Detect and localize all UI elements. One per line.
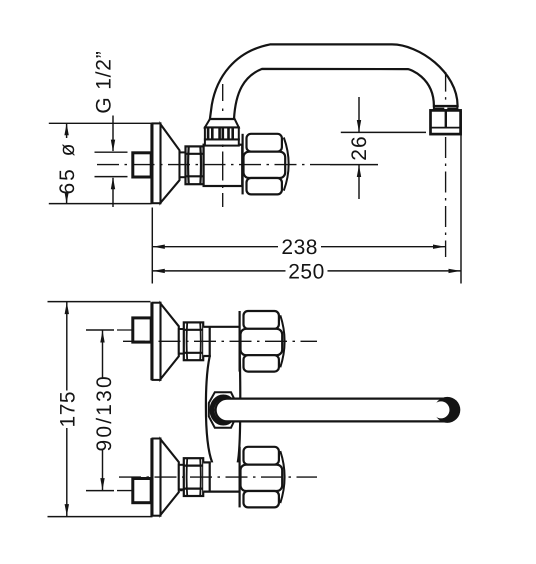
spout end extension line	[460, 111, 462, 284]
bottom valve tube bottom edge	[203, 491, 239, 493]
top union: flange cone	[161, 304, 179, 380]
dimension o65: upper extension line	[49, 122, 152, 124]
side handle: middle facet	[244, 152, 286, 178]
aerator centre divider	[445, 110, 447, 127]
dimension o65: dimension line segments	[66, 123, 68, 138]
bottom handle (plan): top facet	[244, 447, 279, 465]
spout swivel nut cone (trapezoid)	[205, 118, 239, 128]
spout swivel nut smooth band	[205, 139, 239, 145]
svg-text:65 ø: 65 ø	[56, 141, 79, 194]
dimension 26: arrowheads	[357, 120, 361, 132]
top union: flange plate	[153, 303, 161, 380]
svg-text:26: 26	[348, 135, 371, 160]
spout tube heavy end cap	[434, 397, 460, 423]
top handle (plan): top facet	[244, 311, 279, 329]
dimension 90/130: upper extension line	[86, 329, 114, 331]
top union: union hex nut facet lines	[184, 329, 203, 331]
top union: wall nipple	[133, 318, 151, 342]
node: spout outlet centerline upper	[445, 72, 447, 101]
mixer body column left edge	[206, 327, 212, 463]
top valve tube fill	[203, 327, 239, 356]
bonnet hex nut	[186, 146, 204, 184]
flange plate thick left edge	[150, 123, 153, 204]
bottom handle (plan): right silhouette arc	[280, 451, 284, 503]
bottom union: flange plate thick left edge	[150, 438, 153, 516]
side handle: top facet	[247, 134, 282, 152]
nipple: G1/2 threaded wall connector	[133, 153, 151, 177]
svg-text:90/130: 90/130	[93, 374, 116, 451]
top union: flange plate thick left edge	[150, 302, 153, 380]
node: spout leg centerline	[222, 84, 224, 111]
top valve tube top edge	[203, 326, 239, 328]
dimension 238: dimension line segments	[152, 246, 278, 248]
top union: wall nipple centerline (dash-dot)	[117, 329, 184, 331]
top union: neck between cone and union nut	[179, 329, 185, 354]
svg-text:175: 175	[56, 391, 79, 428]
dimension 175: lower extension line	[48, 516, 153, 518]
top handle (plan): right silhouette arc	[280, 315, 284, 367]
wire: G1/2 thread crest line upper	[95, 151, 128, 153]
bonnet hex nut facet lines	[186, 153, 204, 155]
bottom handle (plan): left face	[239, 447, 241, 508]
dimension G1/2: leader shafts	[112, 116, 114, 152]
bottom union: union hex nut chamfer arcs	[186, 459, 189, 496]
node: valve body vertical centerline	[222, 145, 224, 208]
valve body	[204, 145, 243, 186]
flange plate (wall escutcheon)	[153, 123, 161, 203]
svg-text:G 1/2”: G 1/2”	[93, 50, 116, 113]
dimension 238: arrowheads	[153, 245, 165, 249]
spout tube end cap inner white	[433, 401, 450, 418]
aerator top band	[434, 106, 458, 110]
node: spout outlet centerline lower	[445, 137, 447, 257]
bottom valve tube / column boundary	[209, 462, 211, 491]
dimension 90/130: lower extension line	[86, 490, 114, 492]
spout swivel nut castellated band	[205, 127, 239, 139]
top valve tube bottom edge	[203, 355, 211, 357]
spout union octagon	[209, 392, 237, 427]
top handle (plan): middle facet	[241, 329, 283, 355]
aerator main block	[431, 110, 461, 134]
top handle (plan): bottom facet	[244, 355, 279, 371]
bottom union: neck between cone and union nut	[179, 465, 185, 490]
dimension 175: upper extension line	[48, 301, 151, 303]
aerator heavy ring line	[435, 108, 445, 111]
top union: union hex nut	[184, 322, 203, 360]
svg-text:238: 238	[281, 236, 318, 259]
castellation teeth	[207, 127, 210, 139]
wall plane extension line	[151, 208, 153, 284]
bottom handle (plan): bottom facet	[244, 491, 279, 507]
bottom union: flange plate	[153, 439, 161, 516]
dimension 26: upper extension line	[341, 131, 426, 133]
dimension 90/130: arrowheads	[100, 331, 104, 343]
top union: union hex nut chamfer arcs	[186, 323, 189, 360]
dimension 250: dimension line segments	[152, 270, 285, 272]
svg-text:250: 250	[288, 260, 325, 283]
bottom union: wall nipple	[133, 479, 151, 503]
bottom union: union hex nut	[184, 458, 203, 496]
side handle: left face	[242, 134, 244, 195]
top valve tube / column boundary	[209, 327, 211, 356]
dimension 26: arrow shafts	[358, 97, 360, 132]
aerator lower ring line	[431, 127, 461, 129]
dimension o65: lower extension line	[49, 203, 152, 205]
side handle: bottom facet	[247, 178, 282, 194]
spout tube (swivel U-spout)	[210, 44, 458, 119]
bottom valve centerline	[119, 476, 317, 478]
bottom valve tube top edge	[203, 461, 211, 463]
bottom handle (plan): middle facet	[241, 465, 283, 491]
spout tube (plan)	[216, 399, 458, 422]
wire: G1/2 thread crest line lower	[95, 176, 128, 178]
mixer body column (vase) fill	[206, 327, 240, 463]
dimension 175: arrowheads	[65, 302, 69, 314]
flange cone	[161, 124, 180, 203]
bottom union: wall nipple centerline (dash-dot)	[117, 490, 184, 492]
node: centerline solid segment (26 dim reference)	[330, 164, 378, 166]
dimension 250: arrowheads	[153, 269, 165, 273]
spout union heavy ring	[212, 397, 235, 423]
bonnet hex nut chamfer arcs	[187, 147, 190, 184]
bottom union: union hex nut facet lines	[184, 465, 203, 467]
top valve centerline	[123, 340, 317, 342]
mixer body column right edge	[238, 327, 241, 462]
dimension 175: dimension line segments	[66, 302, 68, 391]
side handle: right silhouette arc	[284, 138, 289, 191]
neck between cone and bonnet nut	[180, 152, 186, 177]
top handle (plan): left face	[239, 311, 241, 372]
bottom union: flange cone	[161, 439, 179, 515]
dimension G1/2: arrowheads	[111, 140, 115, 152]
dimension 90/130: dimension line segments	[102, 330, 104, 378]
dimension o65: arrowheads	[64, 123, 68, 135]
bottom valve tube fill	[203, 462, 239, 491]
node: main horizontal centerline	[97, 164, 330, 166]
